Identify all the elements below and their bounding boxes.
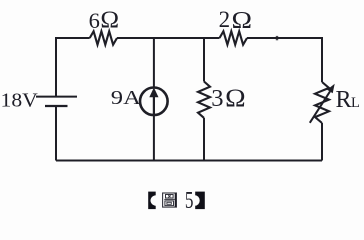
svg-text:6: 6 bbox=[89, 8, 100, 33]
battery 18V negative (short) plate bbox=[45, 105, 68, 107]
wire: node A down to current source top bbox=[153, 38, 155, 87]
current source arrow shaft bbox=[153, 97, 155, 115]
wire: RL bottom to bottom rail bbox=[321, 123, 323, 161]
svg-text:3: 3 bbox=[211, 85, 223, 112]
svg-text:Ω: Ω bbox=[225, 83, 246, 112]
resistor 2Ω zigzag bbox=[220, 31, 248, 44]
svg-text:5: 5 bbox=[185, 188, 194, 214]
wire top: node A to node B (3Ω branch) bbox=[154, 37, 204, 39]
resistor 6Ω zigzag bbox=[90, 31, 117, 44]
svg-text:Ω: Ω bbox=[100, 8, 119, 34]
variable resistor RL arrow shaft bbox=[310, 91, 330, 122]
caption bracket 【 bbox=[148, 192, 162, 210]
wire left-top: from battery positive plate up left side and across top to 6-ohm resistor bbox=[56, 38, 90, 97]
wire top: node B to 2Ω resistor bbox=[204, 37, 220, 39]
wire: node B down to 3Ω resistor bbox=[203, 38, 205, 82]
wire: current source bottom to bottom rail bbox=[153, 116, 155, 161]
battery 18V positive (long) plate bbox=[36, 96, 77, 98]
current source 9A circle bbox=[140, 88, 168, 116]
wire top-right: 2Ω across and down right side to RL bbox=[247, 38, 322, 82]
svg-text:Ω: Ω bbox=[232, 7, 253, 34]
current source arrow head bbox=[149, 88, 158, 98]
wire top: 6Ω to node A (current source branch) bbox=[117, 37, 154, 39]
wire bottom rail bbox=[56, 160, 322, 162]
svg-text:R: R bbox=[336, 87, 352, 113]
svg-text:9A: 9A bbox=[111, 87, 141, 109]
resistor RL vertical zigzag bbox=[315, 82, 329, 123]
caption bracket 】 bbox=[190, 192, 205, 210]
resistor 3Ω vertical zigzag bbox=[198, 82, 210, 118]
wire: 3Ω bottom to bottom rail bbox=[203, 118, 205, 161]
svg-text:18V: 18V bbox=[1, 89, 38, 111]
variable resistor RL arrow head bbox=[327, 84, 335, 94]
svg-text:2: 2 bbox=[219, 7, 231, 32]
wire left-bottom: battery negative plate down to bottom rail bbox=[55, 106, 57, 161]
svg-text:L: L bbox=[351, 95, 360, 111]
junction mark on top wire bbox=[276, 36, 278, 40]
caption glyph 圖 (hand-drawn) bbox=[163, 193, 177, 207]
